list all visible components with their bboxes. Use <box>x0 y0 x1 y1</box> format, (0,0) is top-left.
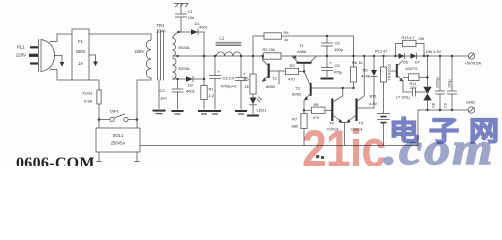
capacitor C1 <box>176 4 187 33</box>
connector GND <box>468 107 474 113</box>
wire plug middle <box>55 55 63 57</box>
label R2 15k <box>263 47 275 52</box>
svg-text:10n: 10n <box>188 15 195 20</box>
label EI03A top <box>179 45 190 50</box>
label T6 A1015 vertical <box>388 64 392 80</box>
svg-text:T2: T2 <box>272 76 277 81</box>
capacitor C9 100u <box>448 56 457 110</box>
resistor R2 <box>264 53 282 59</box>
transistor T3 <box>304 73 354 114</box>
svg-text:R4: R4 <box>284 30 290 35</box>
wire D1 down to D2 junction <box>203 32 205 79</box>
label TR1 10VA <box>156 23 166 34</box>
fuse FUS1 0.5A <box>97 90 101 104</box>
svg-text:T1: T1 <box>299 43 304 48</box>
svg-text:4.8V: 4.8V <box>369 101 378 106</box>
svg-text:FUS1: FUS1 <box>83 91 94 96</box>
capacitor LT 100u <box>403 88 428 96</box>
svg-text:C6: C6 <box>335 41 341 46</box>
svg-text:R13 4.7: R13 4.7 <box>402 36 415 40</box>
bridge resistor R13 4.7 2W <box>396 40 425 56</box>
svg-text:EI03A: EI03A <box>179 45 190 50</box>
zener DW bowtie <box>423 56 431 110</box>
svg-text:2.2: 2.2 <box>209 93 215 98</box>
svg-text:TR1: TR1 <box>157 23 165 28</box>
svg-text:BT1: BT1 <box>370 94 378 99</box>
svg-text:T6 A1015: T6 A1015 <box>388 64 392 80</box>
svg-text:A966: A966 <box>297 49 307 54</box>
diode D1 <box>191 29 204 35</box>
label D2 4001 <box>186 83 196 94</box>
svg-text:R3: R3 <box>290 63 296 68</box>
svg-text:SOL1: SOL1 <box>113 133 124 138</box>
wire T4 T5 emitters to bottom rail <box>342 123 347 146</box>
capacitor C8 2200u <box>436 56 445 110</box>
label PL1 220V <box>16 45 26 58</box>
transistor T1 <box>292 55 317 72</box>
label 220V primary <box>135 49 145 54</box>
main rail <box>178 55 469 57</box>
label LT 100u <box>396 96 410 100</box>
resistor R3 <box>286 68 305 74</box>
label R5 1k <box>244 77 250 90</box>
svg-text:250V5A: 250V5A <box>111 141 126 146</box>
resistor R11 <box>403 74 428 81</box>
label C2 10n <box>160 88 167 101</box>
svg-text:LED1: LED1 <box>257 108 268 113</box>
switch DIP1 <box>99 114 137 122</box>
label L1 <box>220 36 225 41</box>
svg-text:0.5A: 0.5A <box>84 99 93 104</box>
ground rail right <box>418 109 468 111</box>
svg-text:C3 C4: C3 C4 <box>223 76 235 81</box>
svg-text:4700µ×2: 4700µ×2 <box>221 84 238 89</box>
label T2 8050 <box>266 76 277 89</box>
label R3 470 <box>288 63 295 82</box>
label R4 1k <box>284 30 290 42</box>
transistor T4 <box>331 88 343 123</box>
LED LED1 <box>247 97 262 117</box>
wire plug top to fuse rail <box>50 34 72 42</box>
svg-text:+5V/0.5A: +5V/0.5A <box>465 61 482 66</box>
label C8 2200u vertical <box>432 77 440 108</box>
label T5 C9014 <box>351 121 364 132</box>
ground core shield <box>153 80 166 114</box>
resistor R1 <box>198 79 210 115</box>
svg-text:2200µ: 2200µ <box>436 77 440 88</box>
transformer TR1 <box>146 31 178 80</box>
svg-text:+: + <box>218 70 221 75</box>
capacitor C5 <box>321 56 334 80</box>
svg-text:220V: 220V <box>16 53 26 58</box>
svg-text:470µ: 470µ <box>334 70 344 75</box>
wire plug bottom to F1 bottom <box>50 70 72 81</box>
svg-text:100µ: 100µ <box>448 79 452 88</box>
wire primary bottom to switch junction <box>137 78 151 120</box>
wire F1 right middle <box>89 54 96 56</box>
label T1 A966 <box>297 43 307 54</box>
label DIP1 <box>110 109 120 114</box>
svg-text:DIP1: DIP1 <box>110 109 120 114</box>
label R6 1k <box>352 60 362 65</box>
label LED1 <box>257 108 268 113</box>
svg-text:T3: T3 <box>295 86 300 91</box>
label +5V/0.5A <box>465 61 482 66</box>
svg-text:8050: 8050 <box>292 92 302 97</box>
top rail R4 branch <box>253 36 354 56</box>
svg-text:C8: C8 <box>432 103 436 108</box>
watermark dot com <box>384 122 495 175</box>
label C1 10n <box>188 9 195 20</box>
svg-text:8050: 8050 <box>266 84 276 89</box>
svg-text:250V: 250V <box>76 49 86 54</box>
watermark chinese <box>389 119 502 146</box>
svg-text:2W: 2W <box>419 37 425 41</box>
solenoid SOL1 <box>96 128 140 152</box>
resistor R8 <box>304 107 331 113</box>
svg-text:4001: 4001 <box>199 25 209 30</box>
svg-text:4148: 4148 <box>361 74 371 79</box>
svg-text:R8: R8 <box>314 102 320 107</box>
resistor R7 <box>301 114 307 146</box>
svg-text:470: 470 <box>288 77 295 82</box>
svg-text:10n: 10n <box>160 96 167 101</box>
label T3 8050 <box>292 86 302 97</box>
bottom left cut text <box>16 155 95 173</box>
label R8 470 <box>313 102 320 120</box>
svg-text:GND: GND <box>466 100 475 105</box>
diode D2 <box>186 76 204 82</box>
svg-text:D2: D2 <box>188 83 194 88</box>
svg-text:R12 47: R12 47 <box>375 50 387 54</box>
capacitor C3 <box>209 56 221 115</box>
svg-text:R6 1k: R6 1k <box>352 60 362 65</box>
svg-text:R1: R1 <box>209 87 215 92</box>
label FUS1 0.5A <box>83 91 94 104</box>
watermark 21ic <box>302 119 470 169</box>
svg-text:F1: F1 <box>78 39 84 44</box>
svg-text:1k: 1k <box>284 37 288 42</box>
svg-text:1k: 1k <box>245 84 249 89</box>
svg-text:R5: R5 <box>244 77 250 82</box>
svg-text:PL1: PL1 <box>17 45 25 50</box>
label DW 4.3V <box>426 50 442 54</box>
svg-text:DW 4.3V: DW 4.3V <box>426 50 442 54</box>
label D6 D7 4007x2 <box>403 61 420 72</box>
zener D5 <box>371 56 377 77</box>
resistor R4 <box>264 33 282 39</box>
capacitor C2 <box>172 79 184 115</box>
transistor T6 A1015 <box>392 61 404 93</box>
transistor T2 <box>262 56 286 84</box>
resistor R9 <box>380 56 386 113</box>
diode D7 <box>411 53 417 59</box>
svg-text:C9: C9 <box>444 103 448 108</box>
diode D6 <box>399 53 405 59</box>
label GND <box>466 100 475 105</box>
label C9 100u vertical <box>444 79 452 108</box>
wire F1 bottom to fuse FUS1 <box>89 80 99 90</box>
ground arrow right of F1 <box>93 55 98 66</box>
label R11 220 <box>410 82 417 90</box>
label R13 4.7 2W <box>402 36 425 41</box>
wires below SOL1 <box>97 152 140 162</box>
svg-text:D6: D6 <box>403 61 408 65</box>
svg-text:220V: 220V <box>135 49 145 54</box>
resistor R6 <box>350 56 356 88</box>
wire switch to SOL1 <box>99 120 137 129</box>
svg-text:4001: 4001 <box>186 89 196 94</box>
label C5 470u <box>334 63 344 75</box>
svg-text:R7: R7 <box>292 117 298 122</box>
capacitor C6 <box>322 36 333 56</box>
label C6 100u <box>334 41 344 53</box>
label EI03A bottom <box>179 66 190 71</box>
svg-text:680: 680 <box>292 124 299 129</box>
resistor R5 <box>250 56 256 98</box>
svg-text:L1: L1 <box>220 36 225 41</box>
label R7 680 <box>292 117 299 129</box>
wire secondary bottom to D2 <box>178 78 187 80</box>
capacitor C4 <box>235 56 247 115</box>
svg-text:10VA: 10VA <box>156 29 166 34</box>
wire F1 top to transformer <box>89 34 151 40</box>
bottom ground rail <box>140 110 418 146</box>
label BT1 4.8V <box>369 94 378 107</box>
inductor L1 <box>216 42 241 56</box>
svg-text:C2: C2 <box>160 88 166 93</box>
battery BT1 <box>378 114 390 146</box>
svg-text:R2 15k: R2 15k <box>263 47 275 52</box>
svg-text:LT 100µ: LT 100µ <box>396 96 410 100</box>
transistor T5 <box>347 56 375 123</box>
svg-text:C5: C5 <box>335 63 341 68</box>
svg-text:C1: C1 <box>188 9 194 14</box>
fuse-filter F1 <box>72 29 89 80</box>
connector +5V <box>468 53 474 59</box>
wire FUS1 to switch <box>98 104 100 120</box>
chassis ground top <box>174 4 188 7</box>
svg-text:D7: D7 <box>415 61 420 65</box>
label R1 2.2 <box>209 87 215 99</box>
label T4 C9014 <box>327 121 340 132</box>
svg-text:D5: D5 <box>363 68 369 73</box>
ground arrow left of F1 <box>60 56 65 67</box>
label C3 C4 4700u <box>221 76 238 89</box>
label R12 47 <box>375 50 387 54</box>
plug PL1 <box>29 40 55 72</box>
small marks bottom middle <box>316 155 324 159</box>
svg-text:4007*2: 4007*2 <box>406 67 418 71</box>
wire secondary top to D1 <box>179 31 192 33</box>
svg-text:EI03A: EI03A <box>179 66 190 71</box>
label D1 4001 <box>195 21 209 30</box>
svg-text:100µ: 100µ <box>334 47 344 52</box>
label D5 4148 <box>361 68 371 79</box>
svg-text:1A: 1A <box>78 61 83 66</box>
svg-text:+: + <box>330 61 333 66</box>
